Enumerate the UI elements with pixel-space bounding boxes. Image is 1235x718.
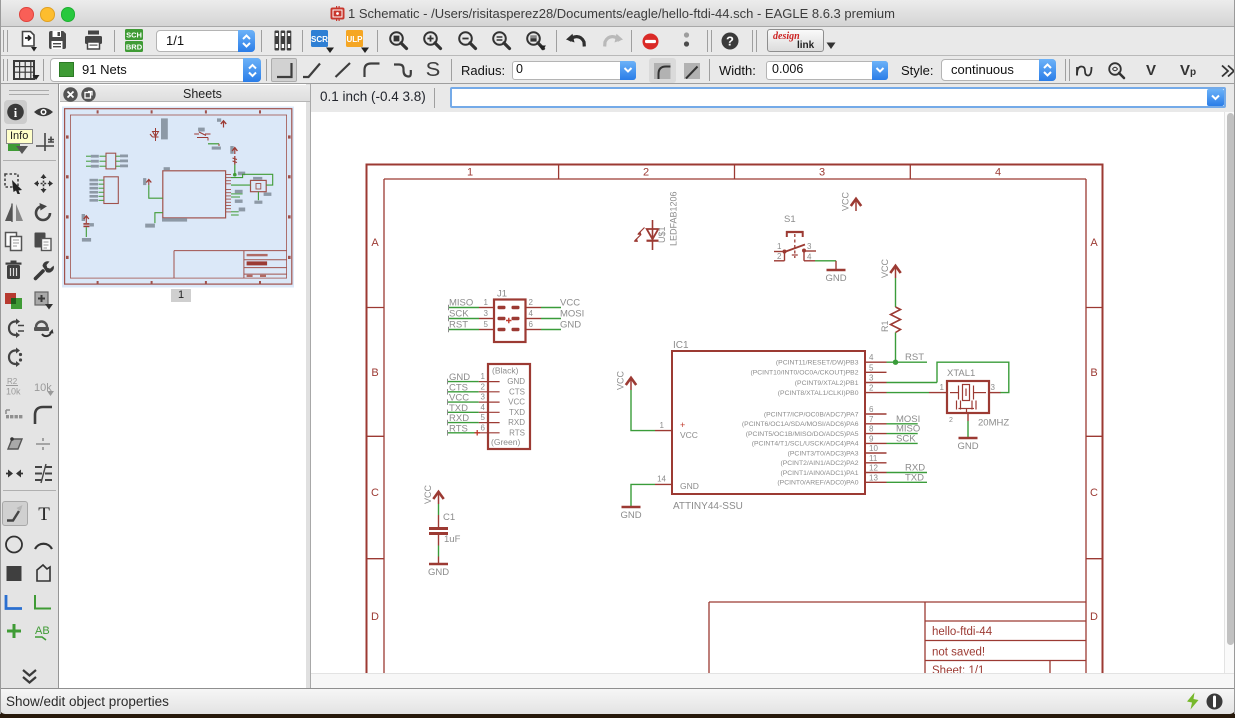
svg-text:MOSI: MOSI (560, 309, 584, 320)
svg-text:T: T (38, 504, 50, 523)
svg-text:TXD: TXD (509, 408, 525, 417)
svg-text:(PCINT6/OC1A/SDA/MOSI/ADC6)PA6: (PCINT6/OC1A/SDA/MOSI/ADC6)PA6 (742, 421, 859, 428)
svg-text:(PCINT4/T1/SCL/USCK/ADC4)PA4: (PCINT4/T1/SCL/USCK/ADC4)PA4 (752, 441, 859, 448)
svg-text:VCC: VCC (508, 398, 525, 407)
svg-text:5: 5 (484, 320, 489, 329)
svg-text:(PCINT10/INT0/OC0A/CKOUT)PB2: (PCINT10/INT0/OC0A/CKOUT)PB2 (750, 370, 858, 377)
svg-text:R2: R2 (7, 377, 18, 386)
svg-text:5: 5 (869, 363, 874, 372)
svg-text:GND: GND (825, 273, 846, 284)
svg-text:AB: AB (35, 625, 50, 637)
svg-text:9: 9 (869, 434, 874, 443)
svg-text:1: 1 (467, 167, 473, 179)
svg-text:VCC: VCC (616, 370, 626, 390)
svg-text:4: 4 (869, 353, 874, 362)
svg-text:GND: GND (620, 510, 641, 521)
svg-text:SCH: SCH (126, 31, 142, 40)
svg-text:(PCINT5/OC1B/MISO/DO/ADC5)PA5: (PCINT5/OC1B/MISO/DO/ADC5)PA5 (746, 431, 859, 438)
svg-text:GND: GND (507, 377, 525, 386)
svg-text:U$1: U$1 (657, 226, 667, 243)
svg-text:1: 1 (940, 383, 945, 392)
svg-text:ULP: ULP (347, 35, 364, 44)
svg-text:A: A (1090, 237, 1098, 249)
svg-text:SCR: SCR (311, 35, 328, 44)
svg-text:(Green): (Green) (491, 437, 520, 447)
svg-text:R1: R1 (880, 320, 890, 332)
svg-text:11: 11 (869, 454, 878, 463)
svg-text:C: C (1090, 487, 1098, 499)
svg-text:GND: GND (957, 441, 978, 452)
svg-text:(PCINT7/ICP/OC0B/ADC7)PA7: (PCINT7/ICP/OC0B/ADC7)PA7 (764, 411, 859, 418)
svg-text:C1: C1 (443, 512, 455, 523)
svg-text:6: 6 (529, 320, 534, 329)
svg-text:2: 2 (529, 298, 534, 307)
svg-text:4: 4 (807, 253, 812, 262)
svg-text:4: 4 (529, 309, 534, 318)
svg-text:1: 1 (484, 298, 489, 307)
svg-text:(PCINT3/T0/ADC3)PA3: (PCINT3/T0/ADC3)PA3 (788, 450, 859, 457)
svg-text:(PCINT8/XTAL1/CLKI)PB0: (PCINT8/XTAL1/CLKI)PB0 (778, 390, 859, 397)
svg-text:RTS: RTS (509, 428, 525, 437)
svg-text:1: 1 (777, 242, 782, 251)
svg-text:10: 10 (869, 444, 878, 453)
svg-text:SCK: SCK (896, 433, 916, 444)
svg-text:3: 3 (481, 393, 486, 402)
svg-text:8: 8 (869, 425, 874, 434)
svg-text:12: 12 (869, 464, 878, 473)
svg-text:VCC: VCC (841, 191, 851, 211)
svg-text:J1: J1 (497, 289, 507, 300)
svg-text:2: 2 (777, 252, 782, 261)
svg-text:3: 3 (807, 242, 812, 251)
svg-text:IC1: IC1 (673, 340, 689, 351)
svg-text:3: 3 (869, 374, 874, 383)
svg-text:6: 6 (481, 423, 486, 432)
svg-text:D: D (371, 611, 379, 623)
svg-text:RST: RST (905, 352, 924, 363)
svg-text:S: S (426, 59, 441, 81)
svg-text:GND: GND (428, 567, 449, 578)
svg-text:S1: S1 (784, 214, 796, 225)
svg-text:5: 5 (481, 413, 486, 422)
svg-text:Sheet: 1/1: Sheet: 1/1 (932, 665, 984, 673)
svg-text:(PCINT11/RESET/DW)PB3: (PCINT11/RESET/DW)PB3 (776, 360, 859, 367)
svg-text:RST: RST (449, 320, 468, 331)
svg-text:hello-ftdi-44: hello-ftdi-44 (932, 626, 993, 638)
svg-text:4: 4 (995, 167, 1001, 179)
svg-text:SCK: SCK (449, 309, 469, 320)
svg-text:1: 1 (660, 421, 665, 430)
svg-text:(PCINT0/AREF/ADC0)PA0: (PCINT0/AREF/ADC0)PA0 (777, 480, 858, 487)
svg-text:CTS: CTS (509, 387, 525, 396)
svg-text:RXD: RXD (508, 418, 525, 427)
svg-text:BRD: BRD (126, 43, 143, 52)
svg-text:2: 2 (643, 167, 649, 179)
svg-text:VCC: VCC (560, 298, 580, 309)
svg-text:not saved!: not saved! (932, 647, 985, 659)
svg-text:(Black): (Black) (492, 366, 519, 376)
svg-text:LEDFAB1206: LEDFAB1206 (669, 191, 679, 246)
svg-text:B: B (371, 367, 378, 379)
svg-text:+: + (680, 420, 685, 430)
svg-text:MISO: MISO (449, 298, 473, 309)
svg-text:2: 2 (869, 384, 874, 393)
svg-text:C: C (371, 487, 379, 499)
svg-text:(PCINT9/XTAL2)PB1: (PCINT9/XTAL2)PB1 (795, 380, 859, 387)
svg-text:13: 13 (869, 473, 878, 482)
svg-text:10k: 10k (6, 387, 21, 397)
svg-text:TXD: TXD (905, 472, 924, 483)
svg-text:B: B (1090, 367, 1097, 379)
svg-text:1uF: 1uF (444, 534, 461, 545)
svg-text:VCC: VCC (680, 430, 698, 440)
svg-text:XTAL1: XTAL1 (947, 368, 975, 379)
svg-text:1: 1 (481, 372, 486, 381)
svg-text:?: ? (726, 34, 734, 49)
svg-text:3: 3 (819, 167, 825, 179)
svg-text:VCC: VCC (880, 258, 890, 278)
svg-text:GND: GND (560, 320, 581, 331)
svg-text:3: 3 (484, 309, 489, 318)
svg-text:7: 7 (869, 415, 874, 424)
svg-text:3: 3 (991, 383, 996, 392)
svg-text:6: 6 (869, 405, 874, 414)
svg-text:2: 2 (481, 382, 486, 391)
svg-text:ATTINY44-SSU: ATTINY44-SSU (673, 501, 743, 512)
svg-text:4: 4 (481, 403, 486, 412)
svg-text:A: A (371, 237, 379, 249)
svg-text:(PCINT2/AIN1/ADC2)PA2: (PCINT2/AIN1/ADC2)PA2 (780, 460, 858, 467)
svg-text:D: D (1090, 611, 1098, 623)
svg-text:GND: GND (680, 481, 699, 491)
svg-text:RTS: RTS (449, 423, 468, 434)
svg-text:14: 14 (657, 475, 666, 484)
svg-text:VCC: VCC (423, 484, 433, 504)
svg-text:i: i (14, 106, 18, 120)
svg-text:(PCINT1/AIN0/ADC1)PA1: (PCINT1/AIN0/ADC1)PA1 (780, 470, 858, 477)
svg-text:20MHZ: 20MHZ (978, 418, 1009, 429)
svg-text:2: 2 (949, 417, 953, 424)
